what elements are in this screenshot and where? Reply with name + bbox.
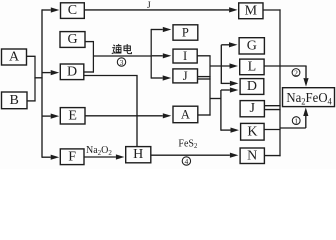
wire from first J right edge (upper) — [198, 76, 211, 78]
svg-text:E: E — [68, 108, 77, 123]
svg-text:D: D — [247, 79, 257, 94]
wire electrolysis line to P/I/J splitter — [93, 55, 151, 57]
svg-text:I: I — [183, 49, 187, 63]
wire main trunk vertical — [41, 9, 43, 157]
wire from second J right edge (upper) — [264, 105, 280, 107]
wire from K right edge — [264, 129, 281, 131]
box L (right column) — [240, 59, 264, 75]
wire from G right edge — [85, 41, 94, 43]
box F (left column) — [60, 149, 84, 165]
box J (second, right column) — [240, 101, 264, 117]
svg-text:L: L — [248, 59, 257, 74]
wire from L right edge to route 2 elbow — [264, 65, 307, 67]
wire riser to G2 elbow — [220, 45, 222, 84]
box G (second, right column) — [239, 38, 264, 54]
arrow riser into second D (upper) — [221, 81, 238, 86]
box A (second, middle column) — [173, 106, 198, 123]
svg-text:J: J — [249, 101, 255, 116]
box D (second, right column) — [240, 79, 264, 95]
box D (first, left column) — [60, 64, 84, 80]
label circled 2 on route 2 — [292, 68, 300, 77]
svg-text:H: H — [133, 147, 143, 162]
wire from M right edge — [263, 9, 281, 11]
svg-text:B: B — [10, 93, 19, 108]
svg-text:A: A — [9, 50, 20, 65]
arrow splitter into P — [151, 27, 171, 32]
box N (bottom right column) — [240, 148, 264, 164]
wire from A right edge — [27, 55, 36, 57]
svg-text:2: 2 — [294, 68, 298, 77]
arrow splitter elbow into J — [151, 75, 171, 80]
arrow trunk into C — [42, 7, 59, 12]
arrow splitter into I — [152, 53, 172, 58]
label tongdian (electrify) above line — [112, 44, 132, 54]
svg-text:M: M — [245, 3, 258, 18]
wire vertical joining A and B — [34, 56, 36, 101]
arrow lower riser into second D (lower) — [221, 87, 239, 92]
wire from N right edge — [264, 155, 280, 157]
arrow route 1 up into Na2FeO4 bottom — [303, 108, 308, 129]
box E (left column) — [60, 108, 85, 124]
label circled 4 below H-N arrow — [182, 157, 190, 166]
svg-text:D: D — [67, 64, 77, 79]
wire vertical joining G and D — [92, 41, 94, 73]
wire from first J right edge (lower) — [198, 78, 211, 80]
wire route 1 horizontal — [280, 127, 306, 129]
arrow route 2 down into Na2FeO4 top — [303, 66, 308, 87]
wire from second J right edge (lower) — [264, 109, 280, 111]
arrow bus into L — [210, 63, 238, 68]
wire from second A right edge — [198, 114, 211, 116]
arrow F into H (Na2O2) — [84, 154, 124, 159]
wire from D upper right edge — [84, 71, 94, 73]
wire D to H elbow — [84, 76, 137, 147]
svg-text:C: C — [68, 3, 77, 18]
box C (top left column) — [61, 3, 85, 19]
box M (top right column) — [239, 3, 263, 19]
arrow H into N (FeS2) — [151, 153, 239, 158]
wire from B right edge — [27, 100, 36, 102]
svg-text:4: 4 — [185, 157, 189, 166]
svg-text:F: F — [68, 149, 76, 164]
box J (first, middle column) — [173, 69, 198, 83]
box K (right column) — [241, 123, 265, 140]
arrow E into second A — [85, 113, 171, 118]
box B (reactant B, left column) — [2, 92, 28, 109]
arrow trunk into E — [42, 114, 59, 119]
arrow trunk into D — [42, 70, 59, 75]
arrow trunk elbow into F — [42, 155, 59, 160]
svg-text:J: J — [147, 1, 151, 11]
box I (middle column) — [173, 49, 197, 63]
wire vertical I/J/A2 bus — [209, 56, 211, 116]
wire lower riser K branch — [220, 90, 222, 131]
label circled 1 on route 1 — [292, 117, 300, 126]
svg-text:3: 3 — [120, 58, 124, 67]
box Na2FeO4 (product, far right) — [283, 88, 335, 107]
label circled 3 below electrolysis line — [117, 58, 125, 67]
svg-text:K: K — [247, 124, 257, 139]
wire right bus vertical from M down to N level — [279, 9, 281, 156]
wire stub from A/B junction to trunk — [34, 77, 42, 79]
box A (reactant A, left column) — [2, 49, 27, 65]
arrow C to M (labelled J) — [84, 7, 237, 12]
svg-text:J: J — [183, 69, 188, 83]
svg-text:Na2FeO4: Na2FeO4 — [286, 90, 332, 107]
svg-text:P: P — [182, 26, 189, 40]
box H (bottom middle) — [126, 147, 151, 163]
svg-text:1: 1 — [294, 117, 298, 126]
wire from I right edge — [197, 55, 210, 57]
wire splitter vertical for P I J — [150, 29, 152, 79]
wire stub bus to second riser — [210, 98, 222, 100]
svg-text:G: G — [247, 38, 257, 53]
box G (first, left column) — [60, 32, 85, 48]
arrow riser into second G — [221, 42, 237, 47]
svg-text:A: A — [181, 108, 190, 122]
arrow lower riser into K — [221, 128, 239, 133]
svg-text:N: N — [247, 148, 257, 163]
svg-text:G: G — [67, 32, 77, 47]
box P (middle column) — [173, 25, 198, 40]
